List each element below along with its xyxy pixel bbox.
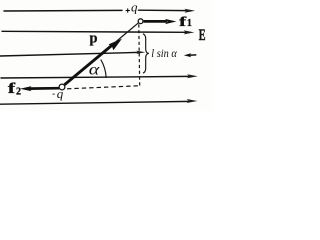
dipole axis thin line: [64, 23, 139, 86]
svg-text:2: 2: [16, 86, 21, 97]
label +q : plus sign: [126, 8, 130, 12]
svg-text:p: p: [90, 31, 98, 47]
arrowhead field line 3: [137, 51, 146, 54]
force F1 arrow shaft: [144, 20, 167, 23]
field line 3: [0, 52, 139, 56]
charge circle +q: [138, 19, 143, 24]
angle arc alpha: [101, 60, 106, 78]
svg-text:-: -: [52, 89, 55, 100]
svg-text:f: f: [8, 81, 15, 97]
svg-text:1: 1: [187, 18, 192, 29]
field line 1 right segment: [139, 9, 189, 11]
svg-text:q: q: [57, 86, 64, 101]
dashed vertical from +q down: [138, 24, 141, 85]
svg-text:l sin α: l sin α: [151, 46, 177, 60]
force F2 arrow shaft: [29, 87, 59, 90]
arrowhead field line 5: [187, 99, 198, 103]
arrowhead field line 4: [187, 74, 198, 78]
svg-text:f: f: [179, 15, 186, 30]
svg-text:q: q: [131, 0, 138, 15]
dashed horizontal from -q to vertical: [67, 86, 140, 89]
small left arrow after l sin alpha: [188, 54, 196, 56]
vector p arrowhead: [109, 39, 123, 51]
arrowhead field line 2: [184, 30, 195, 34]
field line 1 left segment: [4, 9, 122, 12]
vector p thick shaft: [65, 46, 112, 85]
field line 5: [0, 101, 190, 104]
field line 2: [2, 31, 187, 32]
force F2 arrowhead: [20, 86, 32, 91]
svg-text:E: E: [199, 25, 206, 44]
field line 4: [1, 76, 190, 78]
arrowhead field line 1: [185, 9, 196, 13]
svg-text:α: α: [89, 62, 100, 79]
force F1 arrowhead: [165, 19, 176, 24]
charge circle -q: [59, 84, 65, 90]
brace for l sin alpha: [143, 34, 149, 73]
